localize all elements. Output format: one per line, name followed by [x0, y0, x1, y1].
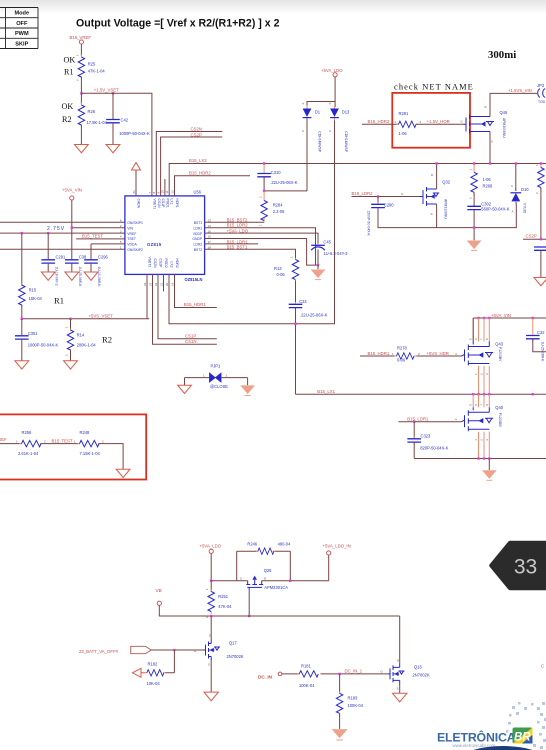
svg-text:REF: REF: [0, 437, 7, 442]
wire pin12 B15_HDR2: [175, 176, 251, 196]
svg-text:C34: C34: [299, 299, 307, 304]
wire pin10 stub: [164, 179, 166, 196]
svg-text:.22U-25-06X-K: .22U-25-06X-K: [300, 313, 328, 318]
power arrow above CADA pin: [132, 163, 141, 196]
svg-text:2N7002K: 2N7002K: [413, 673, 430, 678]
node dot Q25 source branch: [210, 580, 212, 582]
node DC_IN terminal: [258, 672, 282, 679]
svg-text:R278: R278: [397, 346, 408, 351]
svg-text:R14: R14: [77, 332, 85, 337]
diode D1: [302, 102, 322, 153]
wire ON/SKIP2 pin1: [0, 248, 125, 250]
pin number labels top: [132, 190, 175, 194]
wire Q32 drain to rail: [436, 164, 438, 190]
capacitor C310: [257, 164, 297, 185]
svg-text:R281: R281: [399, 111, 410, 116]
wire R281 to Q46 gate: [416, 123, 464, 125]
svg-text:R2: R2: [62, 115, 72, 124]
svg-text:OZ815LN: OZ815LN: [185, 277, 203, 282]
svg-text:APM3106NU: APM3106NU: [444, 199, 448, 219]
svg-text:22: 22: [154, 282, 158, 286]
svg-text:10K-04: 10K-04: [147, 681, 161, 686]
node dot R182 branch: [173, 649, 175, 651]
svg-text:VYL95: VYL95: [523, 203, 527, 213]
node dot right CS2P: [540, 238, 542, 240]
svg-text:S: S: [208, 663, 210, 667]
node junction VIN: [71, 227, 73, 229]
wire gate Q17: [151, 649, 203, 651]
resistor right edge (clipped): [535, 164, 544, 195]
capacitor C42: [106, 93, 150, 136]
svg-text:.22U-25-06X-K: .22U-25-06X-K: [270, 180, 298, 185]
svg-text:Mode: Mode: [14, 11, 29, 17]
wire +5VA_LDO to diodes: [307, 77, 335, 107]
capacitor C290: [367, 195, 395, 236]
svg-text:B15_TEST: B15_TEST: [82, 234, 103, 239]
svg-text:+5VA_LDO: +5VA_LDO: [321, 68, 343, 73]
wire C42 to ground: [112, 123, 114, 145]
wire DC_IN to R181: [282, 673, 300, 675]
svg-text:LDR2: LDR2: [194, 243, 203, 247]
svg-text:R251: R251: [218, 594, 229, 599]
wire pin23 CS1N: [153, 274, 217, 344]
svg-text:R183: R183: [348, 695, 359, 700]
node dot R251 bottom: [210, 615, 212, 617]
svg-text:HDR2: HDR2: [175, 259, 179, 268]
diode D10 (zener): [510, 184, 529, 214]
node junction C291 branch: [47, 232, 49, 234]
svg-text:12: 12: [170, 190, 174, 194]
logo decoration pixels: [506, 702, 546, 749]
node dots +5VA_VIN drain pins: [477, 317, 534, 319]
capacitor C291: [41, 233, 66, 286]
svg-text:1U-25-06R-K: 1U-25-06R-K: [78, 267, 82, 288]
off-page connector 23_BATT_VA_OFF#: [79, 646, 151, 654]
wire pin24 VSET2 to +5VS_VSET: [146, 274, 148, 318]
node dot C302 rail: [473, 226, 475, 228]
svg-text:ON/SKIP2: ON/SKIP2: [127, 248, 143, 252]
svg-text:VB: VB: [156, 588, 162, 593]
svg-text:APM3006NU: APM3006NU: [502, 118, 506, 138]
svg-text:B15_VREF: B15_VREF: [70, 35, 92, 40]
wire R268 to C302: [473, 193, 475, 207]
svg-text:Q40: Q40: [495, 405, 503, 410]
resistor R182: [145, 662, 166, 686]
svg-text:B15_LX1: B15_LX1: [317, 389, 335, 394]
svg-text:+5VA_VIN: +5VA_VIN: [491, 313, 511, 318]
svg-text:100K-04: 100K-04: [348, 703, 364, 708]
wire PJP1 left to ground: [184, 378, 186, 386]
svg-text:CS2N: CS2N: [191, 126, 202, 131]
svg-text:D10: D10: [521, 187, 529, 192]
wire down to R182: [165, 650, 175, 673]
wire B15_LX2 bus: [169, 164, 546, 196]
wire D1 cathode down to BST1 node: [306, 119, 308, 191]
wire B15_LDR2 to Q32 gate: [352, 196, 421, 198]
svg-text:Q17: Q17: [229, 641, 237, 646]
ground under R14: [64, 361, 78, 369]
wire Q16 source to ground: [399, 685, 401, 694]
node dot right resistor top: [540, 162, 542, 164]
wire pin9 CS2P: [161, 132, 223, 196]
page tab 33: [492, 543, 546, 588]
node +5VA_LDO_IN terminal: [323, 543, 351, 555]
red highlight rectangle around R281: [392, 93, 470, 148]
transistor Q16: [381, 659, 430, 691]
resistor R268: [468, 164, 493, 200]
svg-text:CS2N: CS2N: [153, 259, 157, 269]
svg-text:B15_HDR1: B15_HDR1: [368, 351, 390, 356]
node dot C323 junction: [413, 421, 415, 423]
wire B15_VREF to R25: [80, 44, 82, 56]
transistor Q17: [194, 634, 244, 667]
ground under Q17: [204, 692, 218, 701]
svg-text:R268: R268: [483, 183, 494, 188]
net +5VS_VSET wire: [21, 314, 150, 320]
svg-text:21: 21: [160, 282, 164, 286]
svg-text:560P-50-04X-K: 560P-50-04X-K: [481, 207, 509, 212]
svg-text:check NET NAME: check NET NAME: [394, 83, 474, 92]
svg-text:+5VS_VSET: +5VS_VSET: [89, 314, 114, 319]
svg-text:R26: R26: [88, 109, 96, 114]
svg-text:A: A: [302, 102, 304, 106]
wire right resistor to CS2P: [540, 188, 542, 239]
svg-text:490-04: 490-04: [278, 541, 291, 546]
connector JP3 (clipped): [537, 83, 546, 104]
svg-text:17.8K-1-04: 17.8K-1-04: [87, 120, 108, 125]
ground right edge (clipped): [534, 278, 546, 286]
node dot C310 top on LX2 bus: [263, 162, 265, 164]
power ground under C45 (filled): [311, 270, 326, 280]
svg-text:R182: R182: [148, 662, 159, 667]
wire +1.5V_VSET to IC pin 7: [81, 93, 151, 196]
svg-text:+1.5V_HOR: +1.5V_HOR: [427, 119, 450, 124]
svg-text:Q46: Q46: [500, 110, 508, 115]
svg-text:VSET2: VSET2: [148, 257, 152, 268]
wire right cap to ground: [540, 250, 542, 277]
svg-text:15K-04: 15K-04: [29, 296, 43, 301]
wire R15 to +5VS_VSET: [21, 305, 23, 319]
wire PJP1 right to ground: [247, 378, 249, 386]
wire +5VA_VIN down to VIN wire and C38: [71, 200, 73, 259]
svg-text:DC_IN: DC_IN: [258, 675, 273, 680]
svg-text:Q32: Q32: [442, 180, 450, 185]
wire Q25 source loop: [211, 551, 329, 581]
svg-text:R246: R246: [247, 541, 258, 546]
node +1.5V_VSET: [80, 88, 119, 95]
svg-text:PGD1: PGD1: [165, 199, 169, 208]
node dot C34/LX2: [294, 323, 296, 325]
svg-text:S: S: [431, 212, 433, 216]
svg-text:R181: R181: [301, 664, 312, 669]
node junction R15 branch: [21, 232, 23, 234]
svg-text:B15_HDR1: B15_HDR1: [184, 302, 206, 307]
svg-text:BST2: BST2: [194, 248, 203, 252]
svg-text:PGD2: PGD2: [164, 259, 168, 268]
resistor R183: [336, 674, 363, 716]
svg-text:BR: BR: [514, 732, 531, 744]
svg-text:SKIP: SKIP: [15, 41, 28, 47]
text OK R1: [64, 56, 76, 77]
wire pin19 B15_HDR1: [175, 274, 217, 307]
wire +5VA_LDO down to R251: [210, 553, 212, 591]
red highlight rectangle around R256/R248: [0, 414, 146, 479]
power arrow left at R182: [133, 668, 146, 677]
wire Q32 source to lower rail: [436, 204, 438, 228]
node dot GNDP/C45: [317, 264, 319, 266]
node dot Q46 source on rail: [489, 162, 491, 164]
svg-text:VIN: VIN: [127, 226, 133, 230]
svg-text:B15_LDR2: B15_LDR2: [227, 223, 249, 228]
wire Q43 drain pins to +5VA_VIN: [473, 318, 489, 342]
text OK R2: [62, 102, 74, 124]
svg-text:B15_HDR2: B15_HDR2: [368, 119, 390, 124]
svg-text:C323: C323: [421, 433, 432, 438]
wire B15_HDR1 to R278: [360, 355, 397, 357]
wire CS2P: [523, 238, 546, 240]
svg-text:B15_LX2: B15_LX2: [189, 158, 207, 163]
svg-text:S: S: [491, 140, 493, 144]
wire C302 to lower rail and ground stub: [473, 210, 475, 241]
node dot R183 branch: [338, 673, 340, 675]
svg-text:100K-04: 100K-04: [299, 683, 315, 688]
svg-text:A: A: [512, 210, 514, 214]
ground under C301: [15, 361, 29, 369]
wire stub to power ground: [317, 265, 319, 269]
svg-text:B15_LDR1: B15_LDR1: [407, 416, 429, 421]
svg-text:20: 20: [165, 282, 169, 286]
svg-text:0-06: 0-06: [277, 272, 286, 277]
pin number labels right side: [208, 219, 212, 250]
capacitor C323: [407, 422, 448, 451]
transistor Q32: [401, 173, 451, 219]
svg-text:CDH148WSP: CDH148WSP: [318, 131, 322, 152]
node +5VA_LDO terminal top: [321, 68, 343, 77]
wire R248 to ground: [99, 444, 123, 470]
wire VB long rail: [159, 605, 399, 616]
transistor Q43: [462, 338, 504, 375]
svg-text:U56: U56: [194, 190, 202, 195]
svg-text:C296: C296: [98, 255, 109, 260]
mode table: [0, 8, 38, 49]
svg-text:300mi: 300mi: [488, 49, 516, 61]
svg-text:19: 19: [171, 282, 175, 286]
jumper PJP1: [185, 363, 248, 389]
wire C34 to LX2 wire and down to B15_LX1: [295, 308, 297, 395]
svg-text:R25: R25: [88, 62, 96, 67]
resistor R256: [16, 430, 46, 456]
capacitor C38: [65, 255, 87, 288]
svg-text:VDDA: VDDA: [127, 243, 137, 247]
resistor R13: [274, 256, 299, 283]
transistor Q25: [240, 568, 288, 591]
svg-text:GNDP: GNDP: [192, 237, 203, 241]
svg-text:51: 51: [132, 190, 136, 194]
svg-text:LDR1: LDR1: [194, 226, 203, 230]
svg-text:R15: R15: [29, 288, 37, 293]
svg-text:CS2P: CS2P: [159, 259, 163, 269]
wire R26 to ground: [80, 125, 82, 145]
wire bottom rail: [414, 442, 546, 458]
svg-text:@CLOSE: @CLOSE: [210, 384, 228, 389]
svg-text:D1: D1: [315, 109, 321, 114]
svg-text:CS1P: CS1P: [185, 334, 196, 339]
wire +5VA_LDO_IN down: [328, 555, 330, 581]
svg-text:200K-1-04: 200K-1-04: [77, 342, 97, 347]
svg-text:C: C: [541, 664, 544, 669]
op-amp controller U56 OZ815: [125, 190, 205, 283]
diode D13: [329, 102, 350, 153]
wire into R281: [362, 123, 399, 125]
wire C310 to R284 node: [264, 177, 307, 191]
ground PJP1 right (filled): [240, 385, 255, 395]
wire pin17 LDR2 B15_LDR1: [205, 239, 259, 244]
wire C38 to ground: [71, 263, 73, 272]
svg-text:0-06: 0-06: [397, 358, 406, 363]
capacitor C302: [467, 202, 509, 212]
svg-text:+5VA_LDO: +5VA_LDO: [200, 543, 222, 548]
ground under R26: [75, 145, 89, 153]
node +5VA_VIN terminal: [62, 188, 82, 201]
logo ELETRONICA BR: [437, 728, 533, 748]
svg-text:CS1N: CS1N: [185, 339, 196, 344]
svg-text:R1: R1: [54, 296, 64, 306]
node dot R268 top: [473, 162, 475, 164]
capacitor C32 right edge: [526, 318, 545, 362]
svg-text:R13: R13: [274, 266, 282, 271]
svg-text:23: 23: [149, 282, 153, 286]
svg-text:R284: R284: [273, 203, 284, 208]
svg-text:2N7002K: 2N7002K: [227, 654, 244, 659]
svg-text:2.61K-1-04: 2.61K-1-04: [18, 451, 39, 456]
svg-text:B15_HDR2: B15_HDR2: [189, 170, 211, 175]
wire R251 to Q17 drain: [210, 616, 212, 640]
net B15_LX1 bus: [296, 389, 546, 394]
svg-text:VDDP: VDDP: [193, 232, 203, 236]
wire TSET pin4: [76, 238, 125, 240]
svg-text:+5VS_HDR: +5VS_HDR: [427, 351, 449, 356]
svg-text:OK: OK: [62, 102, 74, 111]
svg-text:24: 24: [143, 282, 147, 286]
wire pin13 BST1 B15_BST2: [205, 218, 265, 223]
wire VREF pin3: [0, 232, 125, 234]
svg-text:C45: C45: [323, 240, 331, 245]
svg-text:33: 33: [514, 556, 537, 579]
svg-text:PWM: PWM: [15, 31, 29, 37]
wire C301 to ground: [21, 339, 23, 361]
wire VDDA pin5: [91, 244, 125, 259]
page top shadow band: [0, 0, 1, 1]
svg-text:LX2: LX2: [170, 262, 174, 268]
svg-text:CS2P: CS2P: [191, 132, 202, 137]
pin number labels bottom: [143, 282, 175, 286]
svg-text:TSET: TSET: [127, 237, 136, 241]
capacitor right edge (clipped): [534, 247, 546, 250]
power ground below C302 (filled): [467, 241, 482, 251]
svg-text:VREF: VREF: [127, 232, 136, 236]
wire Q43 source pins to B15_LX1: [479, 366, 490, 394]
svg-text:OK: OK: [64, 56, 76, 65]
wire pin18 BST2 B15_BST1: [205, 245, 296, 260]
wire pin15 GNDP: [205, 239, 318, 266]
svg-text:1-06: 1-06: [483, 177, 492, 182]
svg-text:+5VA_LDO_IN: +5VA_LDO_IN: [323, 543, 351, 548]
node +5VA_LDO terminal bottom: [200, 543, 222, 553]
resistor R15: [19, 233, 43, 307]
resistor R181: [298, 664, 323, 689]
wire Q40 drain pins to B15_LX1: [473, 394, 489, 407]
svg-text:R1: R1: [64, 68, 74, 77]
capacitor C34: [289, 299, 328, 317]
node dot Q25 drain branch: [289, 580, 291, 582]
wire C291 to ground: [47, 263, 49, 272]
resistor R248: [74, 430, 104, 456]
ground under C38: [65, 272, 79, 280]
svg-text:+5VA_VIN: +5VA_VIN: [62, 188, 82, 193]
resistor R281: [395, 111, 422, 136]
svg-text:JP3: JP3: [537, 83, 545, 88]
svg-text:LX1: LX1: [170, 199, 174, 205]
wire C45 bottom to GNDP node: [317, 250, 319, 265]
svg-text:VSET1: VSET1: [153, 199, 157, 210]
svg-text:CADA: CADA: [137, 199, 141, 209]
node dots B15_LX1: [472, 393, 534, 395]
node dot Q32 drain: [435, 162, 437, 164]
svg-text:1000P-50-04X-K: 1000P-50-04X-K: [119, 131, 150, 136]
capacitor C301: [15, 319, 58, 348]
node B15_VREF terminal: [70, 35, 92, 44]
wire pin20 LX2 to D13: [169, 118, 335, 324]
wire R14 to ground: [70, 350, 72, 361]
wire C296 to ground: [90, 263, 92, 272]
svg-text:C291: C291: [56, 255, 67, 260]
svg-text:+1.5V_VSET: +1.5V_VSET: [94, 88, 119, 93]
capacitor C45 (polarized): [311, 240, 348, 256]
svg-text:DC_IN_1: DC_IN_1: [345, 669, 363, 674]
node dot D10 top: [515, 162, 517, 164]
svg-text:C42: C42: [121, 118, 129, 123]
svg-text:CS2P: CS2P: [526, 234, 537, 239]
power ground below Q40 (filled): [482, 470, 497, 480]
svg-text:+5VA_LDO: +5VA_LDO: [227, 229, 249, 234]
wire Q40 source pins to bottom rail: [479, 432, 490, 459]
svg-text:2.2-06: 2.2-06: [273, 209, 285, 214]
node dot Q25 gate on VB wire: [248, 615, 250, 617]
wire B15_LDR1 to Q40 gate: [398, 418, 461, 422]
ground under Q16: [393, 693, 407, 702]
svg-text:S: S: [397, 687, 399, 691]
wire Q46 source to +1.5V rail: [489, 132, 491, 164]
wire Q46 drain to +1.5VS_VIN: [490, 93, 537, 116]
wire pin22 CS1P: [158, 274, 217, 338]
svg-text:B15_TEST: B15_TEST: [52, 438, 73, 443]
resistor R246: [247, 541, 291, 554]
svg-text:C310: C310: [271, 170, 282, 175]
resistor R251: [205, 588, 232, 618]
wire R183 to ground: [339, 714, 341, 729]
svg-text:C32: C32: [537, 330, 545, 335]
svg-text:Q25: Q25: [264, 568, 272, 573]
svg-text:CDH148WSP: CDH148WSP: [344, 131, 348, 152]
wire C32 bottom to right edge: [533, 339, 546, 352]
resistor R26: [78, 93, 107, 127]
wire pin8 CS2N: [156, 126, 222, 196]
svg-text:TOD: TOD: [538, 100, 546, 104]
svg-text:Output Voltage =[ Vref x R2/(R: Output Voltage =[ Vref x R2/(R1+R2) ] x …: [76, 18, 280, 30]
pin number labels left side: [120, 219, 122, 250]
svg-text:ON/SKIP1: ON/SKIP1: [127, 221, 143, 225]
svg-text:Q16: Q16: [414, 665, 422, 670]
